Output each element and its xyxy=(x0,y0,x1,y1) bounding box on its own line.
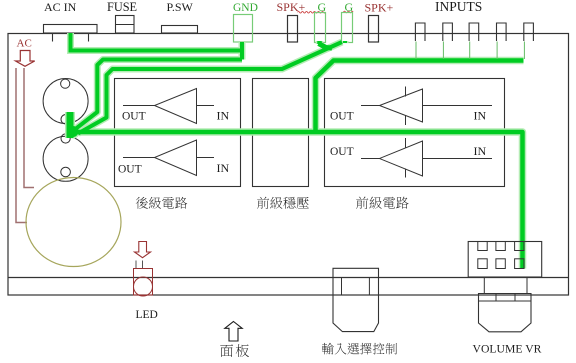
svg-text:VOLUME VR: VOLUME VR xyxy=(473,343,542,356)
AC inlet connector xyxy=(44,25,98,34)
input jack 3 xyxy=(469,23,479,41)
AC mains wire 2 xyxy=(24,68,34,188)
preamp channel 2 xyxy=(361,138,492,178)
svg-text:OUT: OUT xyxy=(122,111,146,123)
power amp channel 2 xyxy=(123,140,214,176)
wire: AC inlet ground to GND terminal xyxy=(71,33,243,51)
volume pot pad bottom 1 xyxy=(478,259,487,269)
volume pot body xyxy=(468,242,542,278)
wire: G terminal right drop xyxy=(343,41,347,43)
filter capacitor C1 xyxy=(43,79,88,124)
toroidal transformer xyxy=(26,178,121,267)
svg-text:LED: LED xyxy=(136,309,158,321)
input jack 5 xyxy=(524,23,534,41)
label preamp board xyxy=(356,197,368,209)
wire: main ground bus to volume pot xyxy=(72,132,523,269)
svg-text:IN: IN xyxy=(217,161,230,175)
GND terminal xyxy=(234,15,253,43)
squiggle under G right xyxy=(344,11,354,13)
label front panel xyxy=(220,344,233,357)
junction G terminals xyxy=(319,44,333,49)
svg-text:OUT: OUT xyxy=(330,146,354,158)
wire: signal ground from G junction to capacitor node xyxy=(78,42,342,134)
wire: input jack 1 ground stub xyxy=(415,42,417,60)
volume pot pad top 3 xyxy=(515,242,524,251)
LED holder box xyxy=(134,269,153,296)
svg-text:FUSE: FUSE xyxy=(107,0,137,14)
power switch P.SW xyxy=(162,26,198,34)
G terminal left xyxy=(315,13,326,43)
svg-text:AC: AC xyxy=(17,37,32,49)
regulator board box xyxy=(253,79,309,187)
volume pot pad bottom 3 xyxy=(515,259,524,269)
front panel edge line xyxy=(8,277,569,279)
wire: GND terminal drop xyxy=(240,42,244,60)
svg-text:GND: GND xyxy=(233,2,258,14)
svg-text:INPUTS: INPUTS xyxy=(435,0,482,14)
input selector switch xyxy=(333,268,379,277)
wire: GND bus to capacitor node xyxy=(74,60,243,131)
G terminal right xyxy=(342,13,353,43)
wire: input jack 4 ground stub xyxy=(496,42,498,60)
chassis outline (top view) xyxy=(8,34,569,296)
volume pot pad top 2 xyxy=(496,242,505,251)
wire: input jack 2 ground stub xyxy=(442,42,444,60)
red down arrow above LED xyxy=(135,242,151,258)
node: capacitor star ground xyxy=(68,126,79,137)
preamp channel 1 xyxy=(361,87,492,126)
input jack 1 xyxy=(415,23,425,41)
AC mains wire 1 xyxy=(16,68,27,223)
label regulator board xyxy=(257,197,269,209)
label power amp board xyxy=(136,197,148,209)
svg-text:IN: IN xyxy=(474,144,487,158)
wire: input jack 5 ground stub xyxy=(523,42,525,60)
filter capacitor C2 xyxy=(43,136,88,181)
power amp channel 1 xyxy=(123,89,214,124)
wire glow underlay xyxy=(66,33,524,269)
volume pot pad bottom 2 xyxy=(496,259,505,269)
wire: input jack 3 ground stub xyxy=(469,42,471,60)
label input selector control xyxy=(322,343,334,355)
svg-text:OUT: OUT xyxy=(118,164,142,176)
svg-text:P.SW: P.SW xyxy=(167,0,194,14)
SPK+ terminal right xyxy=(369,16,379,43)
svg-text:IN: IN xyxy=(474,109,487,123)
wire: input ground bus to main bus xyxy=(316,61,524,133)
svg-text:SPK+: SPK+ xyxy=(365,0,394,14)
power amp board box xyxy=(115,79,241,187)
input jack 2 xyxy=(443,23,453,41)
volume pot pad top 1 xyxy=(478,242,487,251)
LED legs xyxy=(135,261,137,269)
squiggle under SPK+ and G left xyxy=(298,11,326,13)
wire: capacitor link xyxy=(67,112,74,138)
fuse holder xyxy=(116,16,135,34)
LED lens circle xyxy=(134,277,153,296)
svg-text:AC IN: AC IN xyxy=(44,0,77,14)
red down arrow below AC xyxy=(16,51,35,67)
preamp board box xyxy=(325,79,505,187)
svg-text:OUT: OUT xyxy=(330,111,354,123)
svg-text:IN: IN xyxy=(217,109,230,123)
input jack 4 xyxy=(497,23,507,41)
SPK+ terminal left xyxy=(288,16,298,43)
volume pot bushing through panel xyxy=(484,277,527,294)
black up arrow (front panel) xyxy=(225,322,242,342)
volume knob xyxy=(479,294,532,332)
wire: G terminal left drop xyxy=(317,41,322,44)
